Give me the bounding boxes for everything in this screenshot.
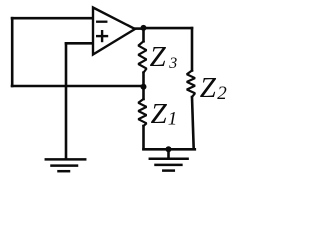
wire non-inverting input to ground vertical [65,43,68,158]
wire feedback left vertical [11,18,14,86]
wire right branch upper vertical [191,28,194,70]
wire node A to Z3 [142,28,145,41]
label Z2 [200,72,227,104]
node ground junction dot [166,146,172,152]
wire output top to right branch [144,27,193,30]
op-amp U1 body [93,8,135,55]
op-amp non-inverting input plus sign [97,31,107,41]
resistor Z2 [187,71,195,98]
resistor Z3 [138,41,146,72]
wire op-amp output [135,27,144,30]
ground (right) [150,159,188,171]
wire right branch lower vertical [192,97,194,149]
node B (feedback junction dot) [141,84,147,90]
svg-text:2: 2 [217,83,227,104]
label Z3 [150,41,178,73]
node A (output junction dot) [141,25,147,31]
svg-text:Z: Z [200,72,217,104]
label Z1 [151,98,178,130]
wire ground stub [167,149,170,158]
wire non-inverting input horizontal [66,42,93,45]
wire bottom rail [144,148,195,151]
svg-text:1: 1 [168,108,178,129]
wire Z1 to bottom rail [142,126,145,149]
wire feedback mid horizontal to node B [12,85,144,88]
resistor Z1 [138,99,146,126]
wire Z3 to node B [142,73,145,87]
wire inverting-input feedback top [12,17,93,20]
wire node B to Z1 [142,87,145,99]
svg-text:Z: Z [150,41,167,73]
op-amp inverting input minus sign [97,21,106,23]
ground (left) [46,159,85,171]
svg-text:Z: Z [151,98,168,130]
svg-text:3: 3 [168,55,177,72]
